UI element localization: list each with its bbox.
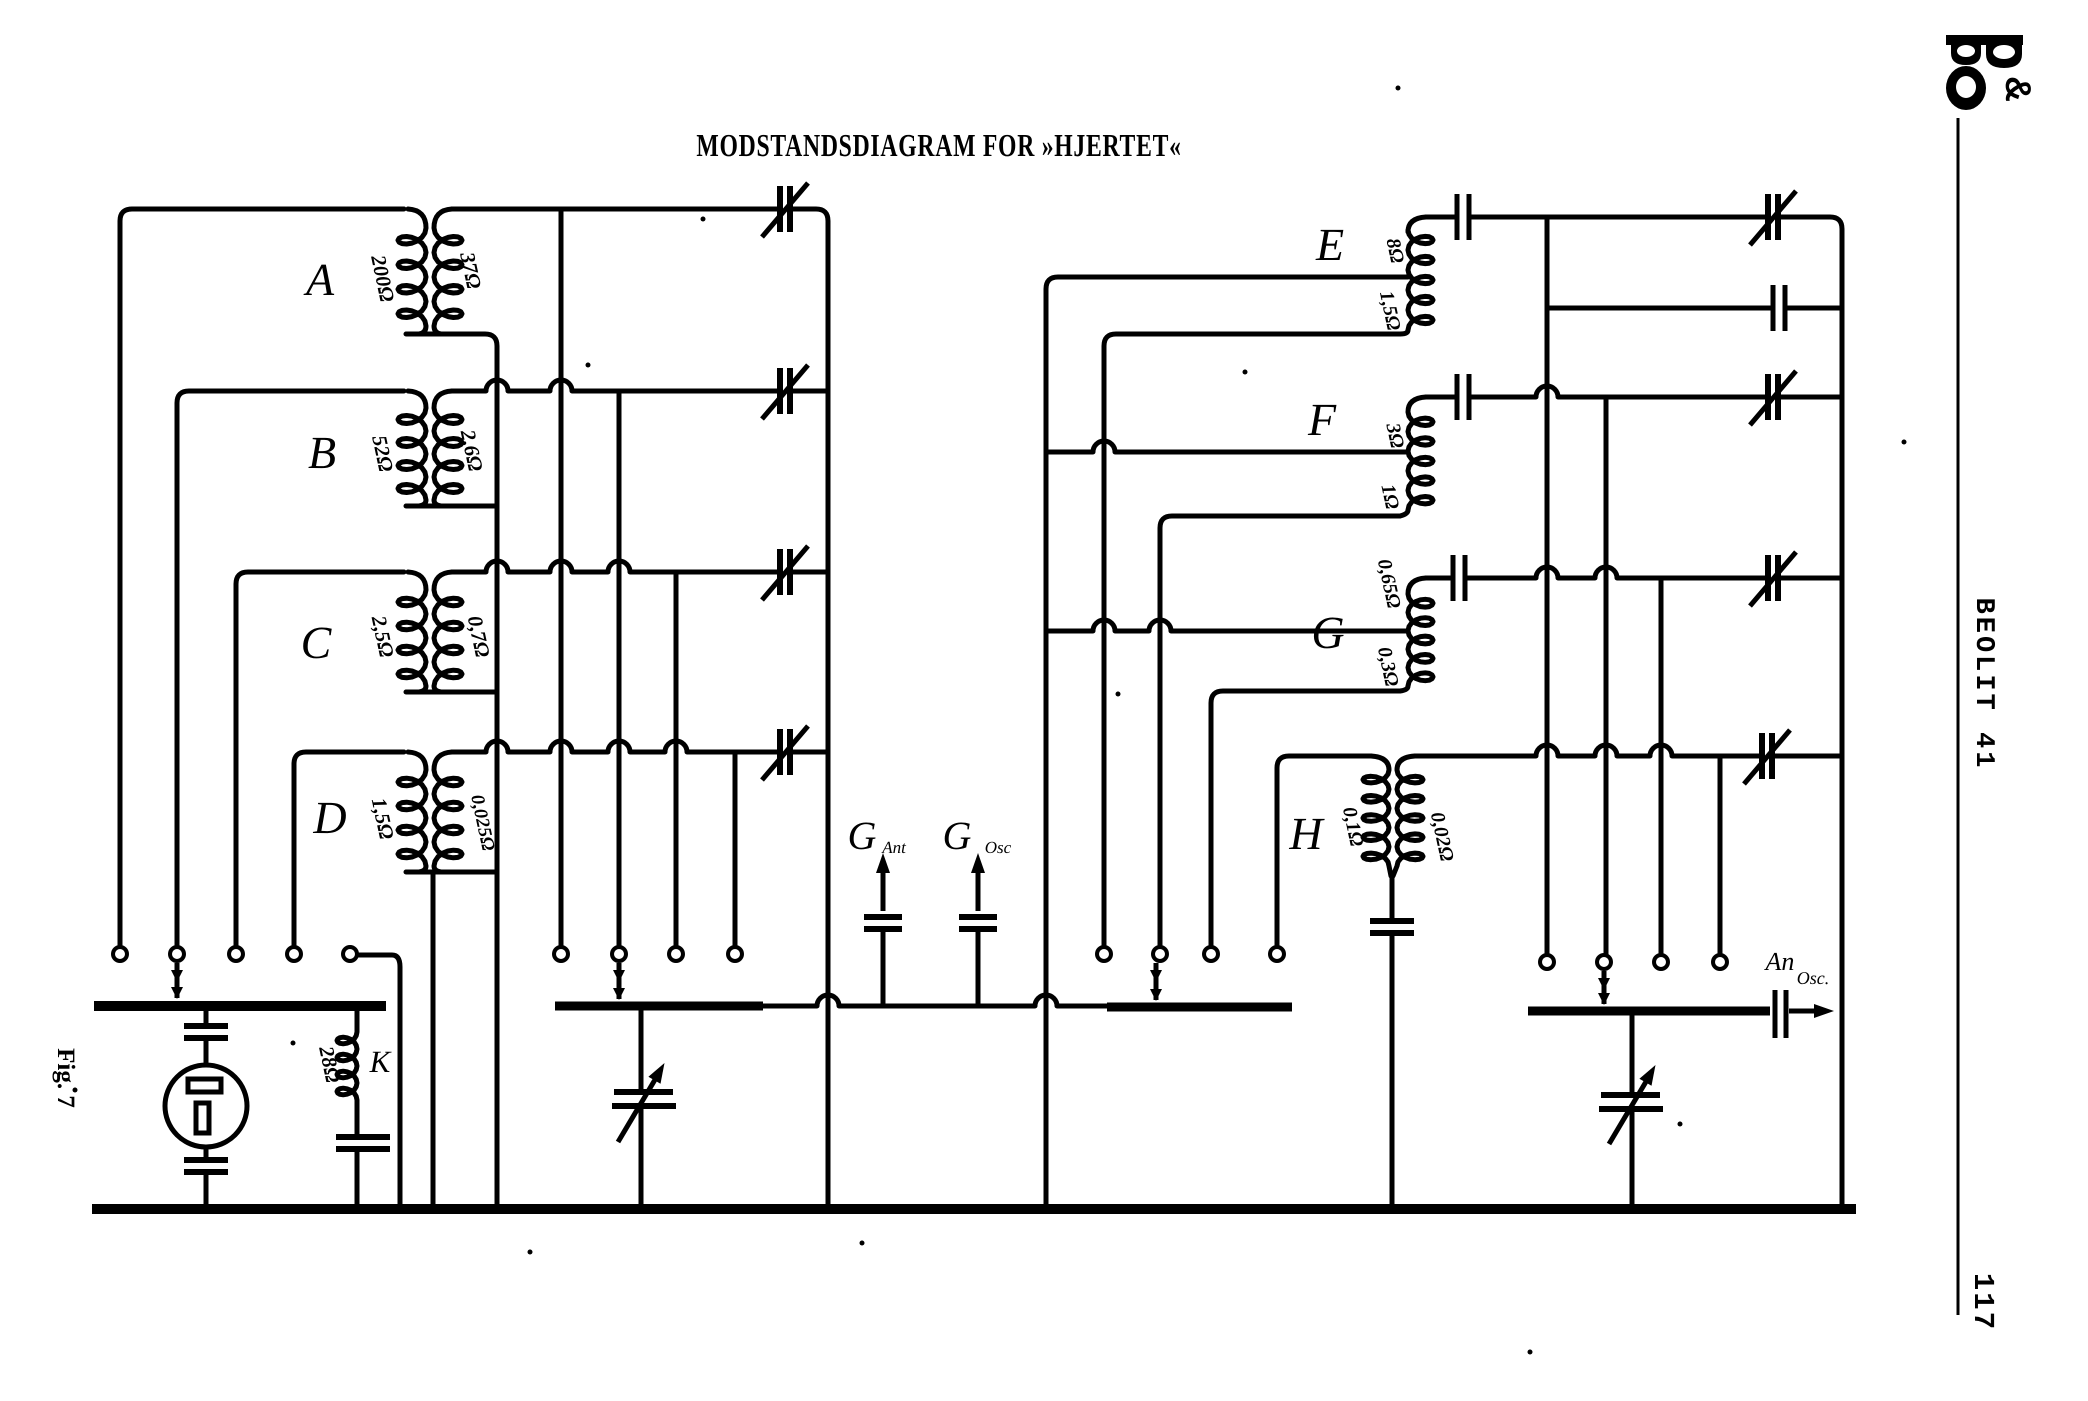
svg-text:Ant: Ant (881, 838, 907, 857)
svg-text:2,5Ω: 2,5Ω (367, 613, 399, 660)
svg-text:B: B (308, 427, 336, 478)
svg-text:200Ω: 200Ω (366, 252, 400, 304)
svg-text:Osc: Osc (985, 838, 1012, 857)
svg-text:1,5Ω: 1,5Ω (367, 796, 399, 842)
svg-text:Fig. 7: Fig. 7 (52, 1048, 79, 1108)
svg-text:K: K (369, 1044, 393, 1079)
svg-text:H: H (1288, 808, 1325, 859)
svg-text:C: C (301, 617, 333, 668)
svg-text:MODSTANDSDIAGRAM FOR »HJERTET«: MODSTANDSDIAGRAM FOR »HJERTET« (696, 127, 1181, 163)
svg-text:1,5Ω: 1,5Ω (1375, 289, 1405, 333)
svg-text:&: & (1998, 76, 2039, 102)
svg-text:E: E (1315, 219, 1344, 270)
svg-text:28Ω: 28Ω (314, 1043, 345, 1085)
svg-text:52Ω: 52Ω (367, 433, 398, 474)
svg-text:G: G (848, 813, 877, 858)
svg-text:BEOLIT 41: BEOLIT 41 (1968, 598, 1998, 771)
svg-text:8Ω: 8Ω (1382, 236, 1409, 265)
svg-text:Osc.: Osc. (1797, 968, 1830, 988)
svg-text:An: An (1764, 947, 1795, 976)
svg-text:G: G (1311, 607, 1344, 658)
svg-text:0,1Ω: 0,1Ω (1338, 805, 1368, 849)
svg-text:G: G (943, 813, 972, 858)
svg-text:0,3Ω: 0,3Ω (1373, 645, 1403, 689)
svg-text:1Ω: 1Ω (1377, 482, 1404, 511)
svg-text:D: D (312, 792, 346, 843)
svg-text:0,025Ω: 0,025Ω (466, 793, 498, 853)
svg-text:0,02Ω: 0,02Ω (1426, 810, 1458, 863)
svg-text:F: F (1307, 394, 1337, 445)
svg-text:3Ω: 3Ω (1381, 420, 1408, 450)
svg-text:0,65Ω: 0,65Ω (1373, 557, 1405, 610)
svg-text:A: A (303, 254, 335, 305)
svg-text:0,7Ω: 0,7Ω (463, 614, 495, 660)
svg-text:117: 117 (1966, 1273, 1999, 1331)
